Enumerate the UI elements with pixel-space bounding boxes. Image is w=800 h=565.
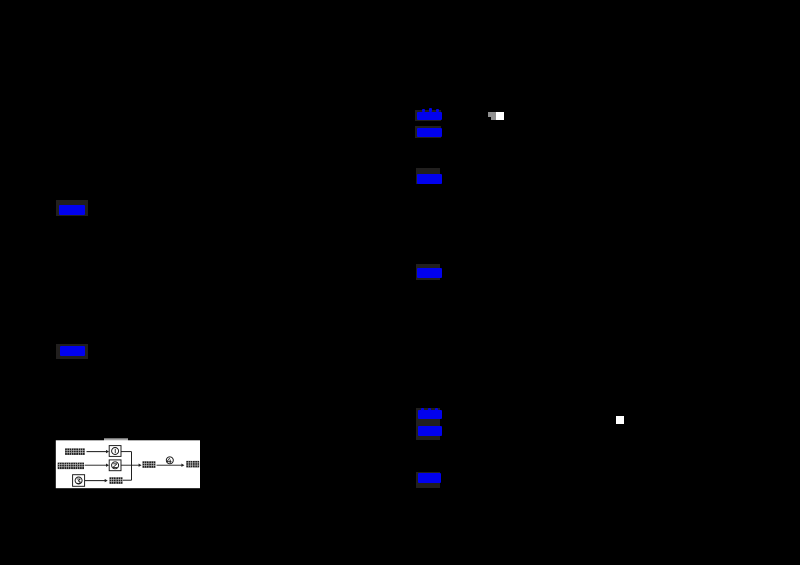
- inline icon: white part: [496, 112, 504, 120]
- seed-formation flowchart image: [50, 436, 205, 492]
- label: seed coat (2 chars): [110, 477, 116, 484]
- answer A shading (right column line 1): [415, 110, 441, 122]
- box 2: [109, 460, 121, 471]
- label: fertilized polar nuclei (4 chars): [58, 463, 64, 470]
- arrowhead row1: [106, 450, 109, 453]
- answer D shading: [416, 264, 440, 280]
- light gray strip above image: [104, 438, 128, 440]
- answer I blue text blob: [60, 346, 85, 356]
- arrowhead into seedling: [181, 464, 184, 467]
- inline icon: gray part: [488, 112, 496, 120]
- label: seed (2 chars): [143, 461, 149, 468]
- answer D blue text blob: [417, 268, 442, 278]
- answer A blue text blob: [417, 112, 442, 121]
- answer E glyph ascender tufts: [421, 408, 424, 411]
- wire: seed to seedling: [157, 464, 182, 466]
- answer A glyph ascender tufts: [422, 109, 425, 113]
- answer C blue text blob: [417, 174, 442, 185]
- digit 3 in circle: [77, 479, 81, 484]
- circled digit 4: [166, 457, 173, 464]
- answer G shading: [416, 472, 440, 488]
- box 3: [73, 475, 85, 487]
- wire: box2 to seed arrow: [121, 464, 139, 466]
- answer H shading (left column): [56, 200, 88, 216]
- answer E/F shared shading (two lines): [416, 408, 441, 441]
- digit 4 in circle: [167, 458, 172, 463]
- answer C shading: [416, 168, 440, 185]
- label: seedling (2 chars): [186, 461, 192, 468]
- box 1: [109, 446, 121, 457]
- white placeholder square: [616, 416, 624, 424]
- answer B shading (right column line 2): [415, 126, 441, 138]
- label: fertilized egg (3 chars): [65, 448, 71, 455]
- circled digit 2: [112, 462, 119, 469]
- circled digit 1: [112, 448, 119, 455]
- digit 1 in circle: [114, 449, 117, 453]
- answer E blue text blob: [418, 410, 442, 419]
- arrowhead row2: [106, 464, 109, 467]
- answer F blue text blob: [418, 426, 442, 436]
- wire: box1 to vertical bus: [121, 451, 132, 453]
- answer G blue text blob: [418, 473, 441, 483]
- wire: seed-coat to vertical bus: [123, 479, 132, 481]
- white image background: [56, 440, 200, 488]
- circled digit 3: [75, 477, 82, 484]
- wire: row1 arrow line into box 1: [87, 451, 107, 453]
- wire: row3 arrow line into seed-coat label: [85, 480, 105, 482]
- wire: row2 arrow line into box 2: [85, 464, 107, 466]
- inline icon: black notch: [488, 117, 491, 120]
- wire: vertical bus: [131, 452, 133, 481]
- answer I shading (left column): [56, 344, 89, 360]
- answer H blue text blob: [59, 205, 85, 215]
- arrowhead into seed: [139, 464, 142, 467]
- arrowhead row3: [105, 479, 108, 482]
- answer B blue text blob: [417, 128, 442, 137]
- digit 2 in circle: [113, 463, 117, 468]
